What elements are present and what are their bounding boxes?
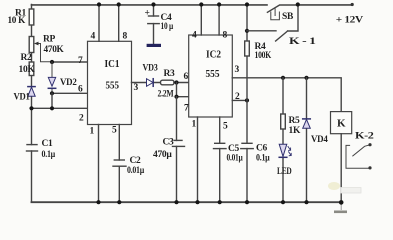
node gnd VD4 <box>304 200 308 204</box>
svg-text:+: + <box>145 9 150 19</box>
capacitor C4 <box>153 5 155 17</box>
diode VD2 <box>51 62 53 93</box>
LED <box>279 144 287 156</box>
watermark <box>328 182 361 213</box>
svg-text:8: 8 <box>123 31 128 41</box>
svg-text:1: 1 <box>192 120 197 130</box>
wire pin2 row <box>32 107 88 109</box>
node junction left column pin2 <box>29 106 33 110</box>
svg-text:VD1: VD1 <box>14 93 30 103</box>
wire R5 branch <box>282 78 284 202</box>
wire pin7 row <box>52 61 88 63</box>
node SB/K-1/+12V <box>296 2 300 6</box>
node gnd LED <box>281 200 285 204</box>
svg-text:IC2: IC2 <box>206 48 221 60</box>
svg-text:10K: 10K <box>19 65 36 75</box>
svg-text:C5: C5 <box>228 144 240 154</box>
svg-text:5: 5 <box>223 122 228 132</box>
svg-text:SB: SB <box>282 12 294 22</box>
wire IC1 pin3 row <box>132 82 161 84</box>
wire IC2 pin1 <box>197 117 199 202</box>
node gnd C3 <box>174 200 178 204</box>
svg-text:3: 3 <box>134 83 139 93</box>
svg-text:VD3: VD3 <box>143 63 158 73</box>
svg-text:470µ: 470µ <box>153 150 172 160</box>
resistor R3 <box>161 80 175 85</box>
svg-text:R3: R3 <box>164 69 176 79</box>
wire IC1 pin4 <box>98 5 100 42</box>
capacitor C6 <box>242 142 252 144</box>
wire top +12V rail <box>32 4 268 6</box>
wire IC2 pin2 row <box>232 99 247 101</box>
svg-text:2: 2 <box>235 92 240 102</box>
svg-text:3: 3 <box>235 65 240 75</box>
svg-text:C2: C2 <box>130 156 142 166</box>
diode VD1 <box>28 86 35 88</box>
capacitor C3 <box>174 139 182 141</box>
node gnd IC1 pin1 <box>96 200 100 204</box>
node gnd IC2 pin1 <box>195 200 199 204</box>
node rail-pin4 <box>97 2 101 6</box>
wire IC2 pin5 <box>219 117 221 143</box>
wire R3 to IC2 pin6 <box>174 82 189 84</box>
svg-text:C6: C6 <box>256 143 268 153</box>
svg-text:C3: C3 <box>163 137 175 147</box>
resistor R2 <box>29 62 34 76</box>
svg-text:4: 4 <box>91 31 96 41</box>
op-amp IC2 555 box <box>189 35 233 117</box>
switch K-1 contact <box>247 5 298 42</box>
svg-text:R5: R5 <box>289 116 301 126</box>
wire +12V feed segment <box>298 4 352 6</box>
node gnd K <box>339 200 344 205</box>
svg-text:K: K <box>337 118 346 130</box>
wire pins 6-2 tie <box>51 93 53 108</box>
svg-text:0.1µ: 0.1µ <box>256 154 270 164</box>
wire IC2 pin4 <box>200 5 202 36</box>
node +12V terminal <box>351 3 354 6</box>
svg-text:IC1: IC1 <box>105 58 120 70</box>
svg-text:K - 1: K - 1 <box>289 37 316 47</box>
svg-text:8: 8 <box>223 30 228 40</box>
node rail-pin8 <box>117 2 121 6</box>
node junction pin2/R4/C6 <box>245 98 249 102</box>
node gnd C6 <box>245 200 249 204</box>
svg-text:1: 1 <box>90 126 95 136</box>
ground C4 bar <box>148 44 159 47</box>
svg-text:C1: C1 <box>42 139 54 149</box>
svg-text:R2: R2 <box>21 53 33 63</box>
svg-text:VD2: VD2 <box>60 78 77 88</box>
wire node to pin7 IC2 <box>177 83 189 97</box>
node gnd C5 <box>218 200 222 204</box>
node rail IC2 pin8 <box>217 2 221 6</box>
svg-text:555: 555 <box>106 79 120 91</box>
svg-text:VD4: VD4 <box>311 135 328 145</box>
svg-text:RP: RP <box>43 35 56 45</box>
node junction pin7/VD2 <box>50 60 54 64</box>
wire bottom ground rail <box>32 201 342 203</box>
node rail R4 <box>245 2 249 6</box>
resistor R4 <box>245 41 250 56</box>
svg-text:7: 7 <box>78 56 83 66</box>
wire RP wiper <box>37 44 53 62</box>
svg-text:6: 6 <box>78 85 83 95</box>
switch SB pushbutton <box>267 5 297 12</box>
svg-text:10 µ: 10 µ <box>161 22 174 32</box>
node junction tie pin2 <box>50 106 54 110</box>
svg-text:10 K: 10 K <box>8 16 26 26</box>
wire IC1 pin5 <box>118 125 120 161</box>
wire IC1 pin1 <box>98 125 100 203</box>
wire node down to C3 <box>176 97 178 203</box>
node junction pin7 IC2 <box>174 95 178 99</box>
wire left column <box>31 5 33 203</box>
svg-text:470K: 470K <box>44 45 65 55</box>
wire R4 column <box>246 5 248 203</box>
svg-text:2.2M: 2.2M <box>158 89 174 99</box>
diode VD3 <box>147 79 154 87</box>
diode VD4 <box>306 78 308 202</box>
node junction VD4 <box>304 76 308 80</box>
svg-text:4: 4 <box>192 30 197 40</box>
svg-text:7: 7 <box>184 104 189 114</box>
svg-text:555: 555 <box>206 68 220 80</box>
node junction K-1/R4 <box>245 29 249 33</box>
node rail IC2 pin4 <box>199 2 203 6</box>
svg-text:6: 6 <box>184 72 189 82</box>
wire IC2 pin3 output row <box>232 78 341 112</box>
wire IC1 pin8 <box>118 5 120 42</box>
resistor R5 <box>281 114 286 129</box>
op-amp IC1 555 box <box>88 41 132 124</box>
svg-text:0.01µ: 0.01µ <box>127 166 145 176</box>
node junction R3 out <box>174 80 178 84</box>
wire K to ground <box>340 134 342 203</box>
svg-text:5: 5 <box>112 125 117 135</box>
resistor RP <box>29 37 34 53</box>
wire pin6 row <box>52 92 88 94</box>
capacitor C2 <box>114 159 124 161</box>
node gnd C2 <box>117 200 121 204</box>
node junction VD2 bottom <box>50 91 54 95</box>
relay K coil box <box>331 112 352 134</box>
svg-text:0.01µ: 0.01µ <box>227 154 244 164</box>
capacitor C5 <box>215 142 225 144</box>
wire IC2 pin8 <box>218 5 220 36</box>
resistor R1 <box>29 9 34 25</box>
capacitor C1 <box>27 144 37 146</box>
svg-text:K-2: K-2 <box>355 131 374 141</box>
svg-text:0.1µ: 0.1µ <box>42 150 56 160</box>
svg-text:LED: LED <box>277 167 292 177</box>
switch K-2 contact <box>346 145 369 168</box>
node junction R5 <box>281 76 285 80</box>
svg-text:1K: 1K <box>289 126 301 136</box>
svg-text:+ 12V: + 12V <box>336 16 364 26</box>
svg-text:2: 2 <box>79 113 84 123</box>
svg-text:100K: 100K <box>255 51 272 61</box>
